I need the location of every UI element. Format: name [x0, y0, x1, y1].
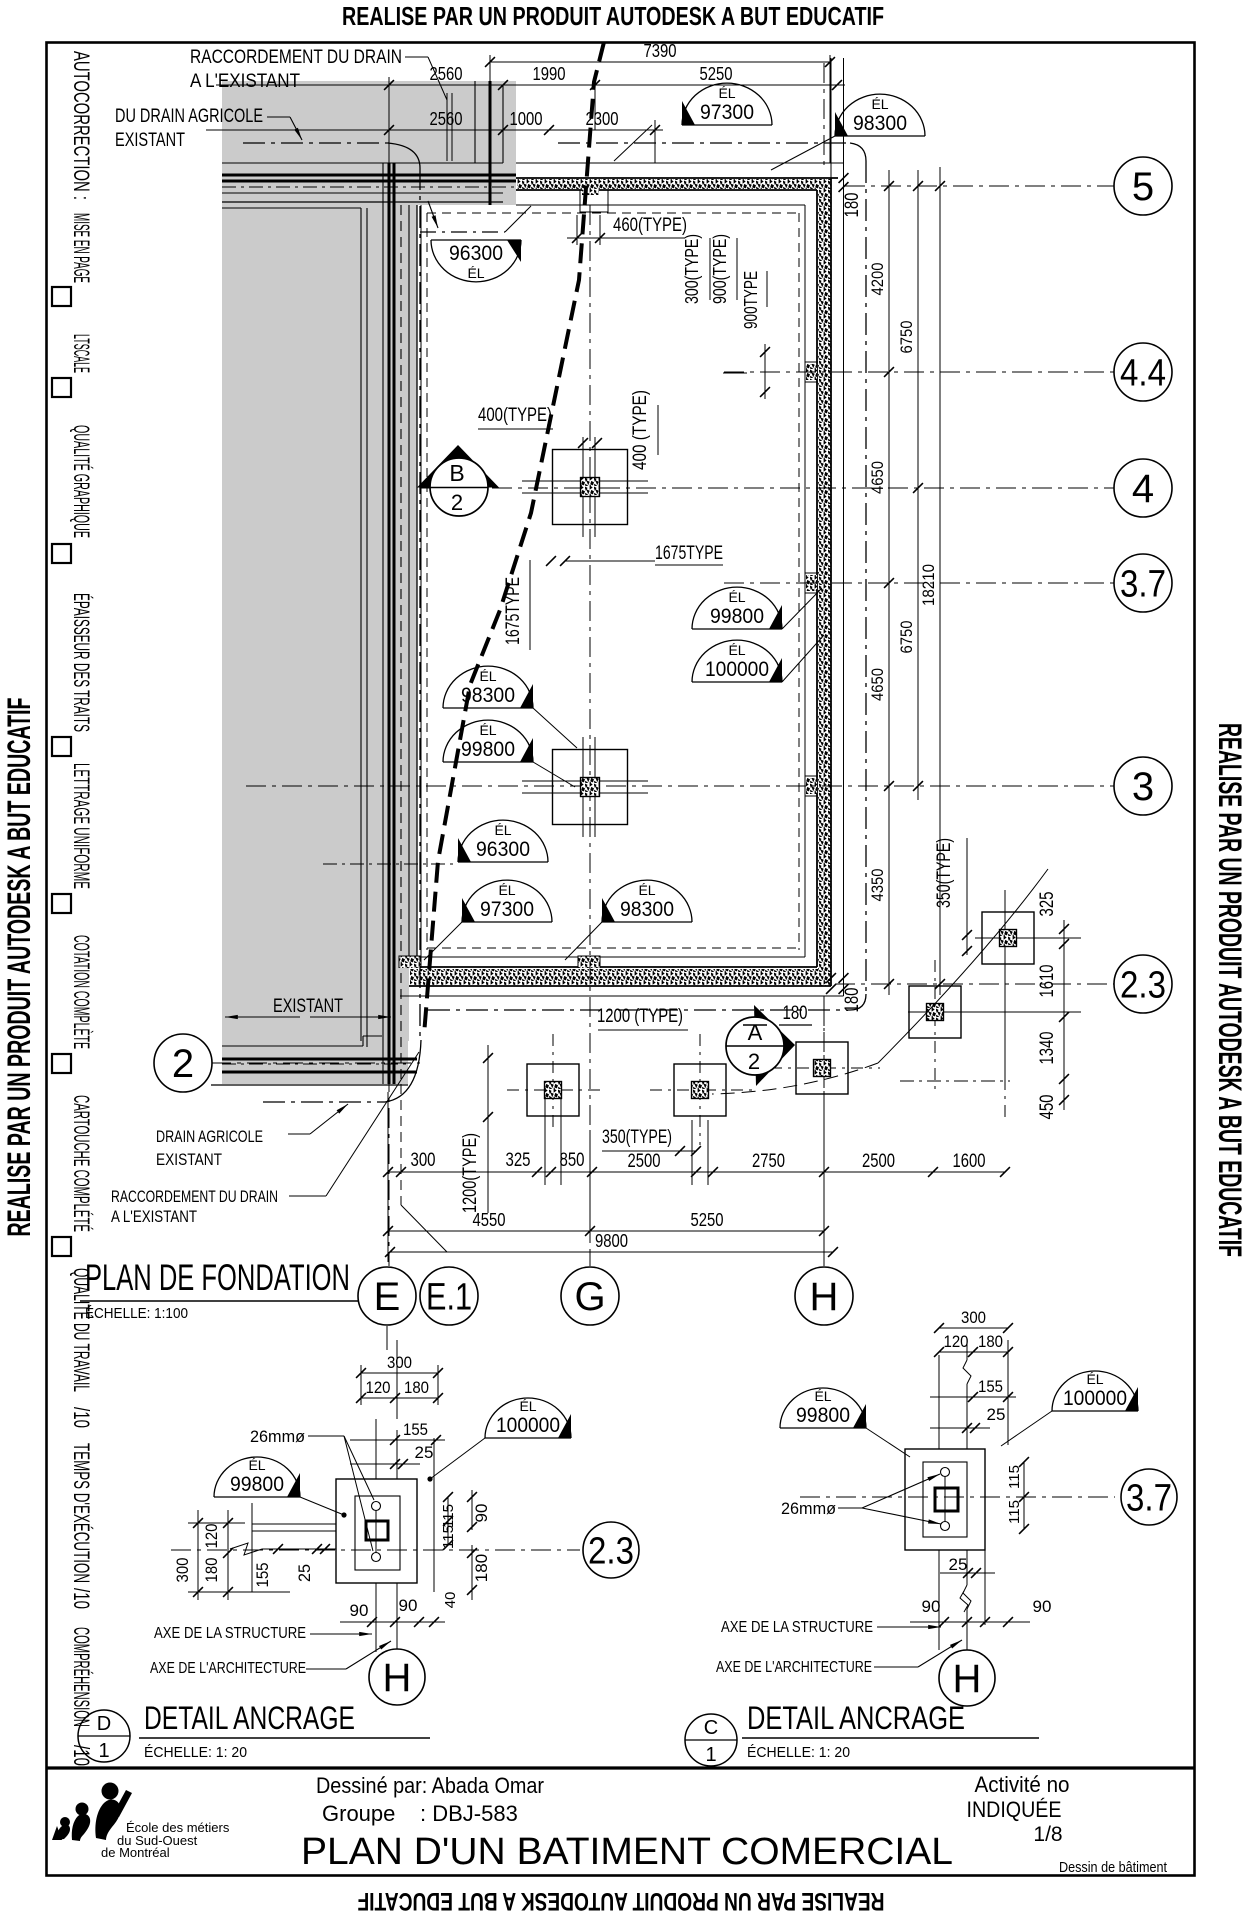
new drain right: [865, 161, 867, 994]
svg-text:25: 25: [987, 1405, 1006, 1424]
svg-text:: DBJ-583: : DBJ-583: [420, 1801, 518, 1826]
drain corner arc top-left: [388, 143, 420, 168]
svg-text:300: 300: [411, 1150, 436, 1171]
elevation 98300 bottom: [602, 880, 692, 922]
svg-text:REALISE PAR UN PRODUIT AUTODES: REALISE PAR UN PRODUIT AUTODESK A BUT ED…: [358, 1887, 885, 1915]
svg-text:99800: 99800: [796, 1404, 850, 1427]
top foundation wall (stippled): [517, 179, 831, 189]
svg-text:2560: 2560: [430, 64, 463, 84]
drain vertical (raccordement): [419, 168, 421, 1040]
svg-text:155: 155: [978, 1377, 1003, 1396]
grid bubble 5: [1114, 157, 1172, 215]
dim row 2560/1000/2300: [206, 129, 663, 131]
svg-text:2750: 2750: [752, 1151, 785, 1172]
svg-text:A L'EXISTANT: A L'EXISTANT: [111, 1207, 197, 1226]
svg-text:300(TYPE): 300(TYPE): [682, 234, 702, 304]
new drain bottom: [428, 1009, 850, 1011]
footing F7: [1004, 890, 1006, 1078]
detail C1 elevation 99800: [780, 1388, 866, 1428]
dim 4550/5250: [388, 1230, 824, 1232]
svg-text:90: 90: [922, 1597, 941, 1616]
svg-text:4: 4: [1132, 467, 1154, 511]
svg-text:25: 25: [295, 1564, 314, 1582]
detail C1 ref circle C/1: [685, 1714, 737, 1766]
svg-text:E.1: E.1: [426, 1276, 472, 1318]
svg-text:ÉL: ÉL: [494, 822, 511, 838]
grid bubble E: [358, 1267, 416, 1325]
svg-text:DRAIN AGRICOLE: DRAIN AGRICOLE: [156, 1127, 263, 1146]
svg-text:2: 2: [172, 1042, 194, 1086]
svg-text:100000: 100000: [496, 1414, 560, 1437]
detail C1 top dims: [939, 1327, 1008, 1329]
svg-text:6750: 6750: [897, 621, 916, 654]
grid line 2.3: [835, 983, 1119, 985]
svg-text:2500: 2500: [862, 1151, 895, 1172]
elevation 98300 mid: [443, 666, 533, 708]
svg-text:2560: 2560: [430, 109, 463, 129]
svg-text:1200(TYPE): 1200(TYPE): [460, 1133, 481, 1213]
svg-text:155: 155: [253, 1563, 272, 1588]
svg-text:5250: 5250: [700, 64, 733, 84]
svg-text:6750: 6750: [897, 321, 916, 354]
svg-text:Activité no: Activité no: [975, 1772, 1070, 1797]
svg-text:D: D: [97, 1713, 111, 1735]
detail D1 vertical lines: [375, 1419, 377, 1479]
dim 9800: [390, 1251, 833, 1253]
dim 1200(TYPE) vertical: [487, 1045, 489, 1213]
svg-text:115: 115: [1006, 1465, 1023, 1489]
svg-text:COMPRÉHENSION: COMPRÉHENSION: [69, 1627, 94, 1727]
svg-text:ÉL: ÉL: [479, 722, 496, 738]
svg-text:ÉL: ÉL: [248, 1457, 265, 1473]
svg-text:1675TYPE: 1675TYPE: [655, 543, 723, 564]
svg-text:ÉPAISSEUR DES TRAITS: ÉPAISSEUR DES TRAITS: [69, 593, 94, 732]
svg-text:97300: 97300: [480, 898, 534, 921]
svg-text:2.3: 2.3: [1120, 964, 1166, 1006]
logo École des métiers: [52, 1783, 132, 1842]
svg-text:ÉL: ÉL: [871, 96, 888, 112]
svg-text:900(TYPE): 900(TYPE): [710, 234, 730, 304]
svg-text:C: C: [704, 1717, 718, 1739]
right wall pilasters: [805, 362, 818, 382]
grid line 3: [246, 785, 1114, 787]
svg-text:DETAIL ANCRAGE: DETAIL ANCRAGE: [144, 1700, 355, 1736]
leader curve through footings: [878, 869, 1048, 1063]
svg-text:350(TYPE): 350(TYPE): [602, 1127, 672, 1148]
elevation 100000 right: [692, 640, 782, 682]
svg-text:7390: 7390: [644, 41, 677, 61]
svg-text:5250: 5250: [691, 1210, 724, 1230]
svg-text:ÉL: ÉL: [519, 1398, 536, 1414]
svg-text:LETTRAGE UNIFORME: LETTRAGE UNIFORME: [69, 763, 94, 889]
svg-text:REALISE PAR UN PRODUIT AUTODES: REALISE PAR UN PRODUIT AUTODESK A BUT ED…: [1212, 723, 1242, 1257]
svg-text:2500: 2500: [628, 1151, 661, 1172]
svg-text:400 (TYPE): 400 (TYPE): [630, 390, 651, 470]
svg-text:ÉL: ÉL: [479, 668, 496, 684]
detail D1 column outline: [336, 1479, 417, 1583]
detail C1 anchor bolts: [941, 1468, 950, 1477]
grid line E: [388, 77, 390, 163]
svg-text:ÉCHELLE: 1: 20: ÉCHELLE: 1: 20: [747, 1744, 850, 1761]
svg-text:DETAIL ANCRAGE: DETAIL ANCRAGE: [747, 1700, 965, 1736]
svg-text:LTSCALE: LTSCALE: [69, 334, 94, 373]
svg-text:1340: 1340: [1037, 1032, 1058, 1065]
svg-text:96300: 96300: [476, 838, 530, 861]
svg-text:RACCORDEMENT DU DRAIN: RACCORDEMENT DU DRAIN: [111, 1187, 278, 1206]
svg-text:120: 120: [944, 1332, 969, 1351]
grid line G: [589, 205, 591, 1266]
detail C1 anchor plate: [935, 1488, 958, 1511]
svg-text:2: 2: [451, 490, 463, 515]
svg-text:155: 155: [403, 1420, 428, 1439]
svg-text:1000: 1000: [510, 109, 543, 129]
svg-text:850: 850: [560, 1150, 585, 1171]
svg-text:B: B: [449, 460, 464, 486]
svg-text:G: G: [574, 1275, 605, 1319]
svg-text:26mmø: 26mmø: [781, 1499, 836, 1518]
svg-text:450: 450: [1037, 1095, 1058, 1120]
grid bubble 3: [1114, 757, 1172, 815]
svg-text:3: 3: [1132, 765, 1154, 809]
svg-text:ÉL: ÉL: [728, 642, 745, 658]
detail D1 elevation 99800: [214, 1457, 300, 1497]
svg-text:ÉCHELLE: 1:100: ÉCHELLE: 1:100: [85, 1305, 188, 1322]
svg-text:A: A: [748, 1020, 763, 1045]
grid line 5: [845, 185, 1114, 187]
svg-text:460(TYPE): 460(TYPE): [613, 215, 687, 236]
svg-text:QUALITÉ GRAPHIQUE: QUALITÉ GRAPHIQUE: [69, 425, 94, 538]
footing F2 at grid G-3: [582, 737, 584, 837]
svg-text:180: 180: [842, 988, 863, 1013]
grid bubble 3.7: [1114, 554, 1172, 612]
existing building gray area: [222, 81, 516, 1084]
svg-text:1200 (TYPE): 1200 (TYPE): [597, 1006, 683, 1027]
svg-text:1/8: 1/8: [1033, 1823, 1062, 1846]
interior hidden dashed outline: [426, 213, 428, 950]
svg-text:Dessiné par: Abada Omar: Dessiné par: Abada Omar: [316, 1773, 544, 1798]
detail D1 left dim chain: [197, 1510, 199, 1600]
svg-text:PLAN D'UN BATIMENT COMERCIAL: PLAN D'UN BATIMENT COMERCIAL: [301, 1831, 953, 1873]
svg-text:4200: 4200: [868, 263, 887, 296]
svg-text:CARTOUCHE COMPLÉTÉ: CARTOUCHE COMPLÉTÉ: [69, 1095, 94, 1232]
svg-text:TEMPS D'EXÉCUTION: TEMPS D'EXÉCUTION: [69, 1443, 94, 1583]
grid line E.1: [400, 1084, 402, 1205]
elevation 97300 bottom: [462, 880, 552, 922]
existing left wall lines: [382, 163, 384, 1084]
svg-text:/10: /10: [69, 1588, 94, 1609]
svg-text:INDIQUÉE: INDIQUÉE: [967, 1797, 1062, 1822]
svg-text:AUTOCORRECTION :: AUTOCORRECTION :: [69, 51, 94, 200]
svg-text:EXISTANT: EXISTANT: [156, 1150, 222, 1169]
svg-text:RACCORDEMENT DU DRAIN: RACCORDEMENT DU DRAIN: [190, 47, 402, 68]
svg-text:9800: 9800: [595, 1231, 628, 1251]
svg-text:REALISE PAR UN PRODUIT AUTODES: REALISE PAR UN PRODUIT AUTODESK A BUT ED…: [342, 1, 884, 31]
elevation 97300 top: [682, 83, 772, 125]
svg-text:A L'EXISTANT: A L'EXISTANT: [190, 71, 300, 92]
svg-text:1: 1: [705, 1744, 716, 1766]
svg-text:ÉL: ÉL: [467, 265, 484, 281]
title block divider: [47, 1766, 1195, 1769]
svg-text:25: 25: [949, 1555, 968, 1574]
dim chain 6750/6750: [917, 170, 919, 800]
svg-text:Dessin de bâtiment: Dessin de bâtiment: [1059, 1859, 1168, 1876]
section marker B/2: [417, 445, 499, 488]
svg-text:4.4: 4.4: [1120, 352, 1166, 394]
section cut bold dashed line: [424, 42, 604, 1035]
svg-text:99800: 99800: [230, 1473, 284, 1496]
svg-text:3.7: 3.7: [1120, 563, 1166, 605]
svg-text:H: H: [810, 1275, 839, 1319]
extension lines bottom: [387, 1092, 389, 1262]
svg-text:98300: 98300: [461, 684, 515, 707]
svg-text:3.7: 3.7: [1126, 1477, 1172, 1519]
svg-text:MISE EN PAGE: MISE EN PAGE: [69, 213, 94, 283]
svg-text:2300: 2300: [586, 109, 619, 129]
svg-text:300: 300: [961, 1308, 986, 1327]
dim chain 4200/4650/4650/4350: [888, 170, 890, 995]
elevation 99800 right: [692, 587, 782, 629]
existing drain dash-dot bottom: [263, 1101, 385, 1103]
new drain top: [558, 142, 850, 144]
svg-text:90: 90: [399, 1596, 418, 1615]
grid line H: [823, 63, 825, 166]
svg-text:1: 1: [98, 1740, 109, 1762]
svg-text:180: 180: [978, 1332, 1003, 1351]
svg-text:ÉL: ÉL: [718, 85, 735, 101]
elevation 98300 top: [835, 94, 925, 136]
svg-text:25: 25: [415, 1443, 434, 1462]
elevation 99800 mid: [443, 720, 533, 762]
dim chain 325/1610/1340/450: [1063, 920, 1065, 1110]
detail C1 right dims 115/115: [1023, 1462, 1025, 1529]
detail C1 column outline: [905, 1449, 985, 1550]
svg-text:180: 180: [202, 1558, 221, 1583]
footing F1 at grid G-4: [582, 437, 584, 537]
svg-text:90: 90: [1033, 1597, 1052, 1616]
short dash near chain: [900, 1080, 1010, 1082]
dim row 2560/1990/5250: [216, 84, 845, 86]
svg-text:E: E: [374, 1275, 401, 1319]
svg-text:ÉL: ÉL: [1086, 1371, 1103, 1387]
bottom foundation wall (stippled): [410, 969, 818, 985]
grid line 3.7: [724, 582, 1114, 584]
detail D1 elevation 100000: [485, 1398, 571, 1438]
footing F6: [934, 960, 936, 1093]
svg-text:AXE DE LA STRUCTURE: AXE DE LA STRUCTURE: [721, 1619, 873, 1636]
svg-text:ÉL: ÉL: [814, 1388, 831, 1404]
elevation 96300 lower: [458, 820, 548, 862]
detail D1 bubble 2.3: [583, 1522, 639, 1578]
svg-text:120: 120: [202, 1524, 221, 1549]
svg-text:325: 325: [506, 1150, 531, 1171]
svg-text:90: 90: [472, 1504, 491, 1523]
svg-text:PLAN DE FONDATION: PLAN DE FONDATION: [85, 1257, 350, 1298]
section marker A/2: [754, 1005, 795, 1086]
grid line 4: [420, 487, 1114, 489]
detail C1 elevation 100000: [1052, 1371, 1138, 1411]
svg-text:40: 40: [442, 1592, 459, 1609]
svg-text:98300: 98300: [853, 112, 907, 135]
footing F5: [823, 1010, 825, 1130]
top wall pilaster notch at G: [580, 190, 608, 212]
svg-text:115: 115: [1006, 1500, 1023, 1524]
svg-text:96300: 96300: [449, 242, 503, 265]
svg-text:AXE DE L'ARCHITECTURE: AXE DE L'ARCHITECTURE: [150, 1660, 306, 1677]
svg-text:AXE DE LA STRUCTURE: AXE DE LA STRUCTURE: [154, 1625, 306, 1642]
detail C1 grid 3.7 centerline: [800, 1496, 1115, 1498]
existing bottom wall lines: [222, 1045, 363, 1047]
dim 180 bottom right wall: [839, 973, 849, 983]
grid bubble 4: [1114, 459, 1172, 517]
grid bubble G: [561, 1267, 619, 1325]
svg-text:ÉL: ÉL: [728, 589, 745, 605]
grid bubble 4.4: [1114, 343, 1172, 401]
footing F4: [699, 1034, 701, 1145]
svg-text:H: H: [953, 1657, 982, 1701]
svg-text:180: 180: [783, 1003, 808, 1024]
svg-text:2: 2: [748, 1049, 760, 1074]
detail D1 beam lines left: [252, 1523, 336, 1525]
svg-text:99800: 99800: [710, 605, 764, 628]
drain corner arc bottom-left: [385, 1040, 421, 1102]
detail C1 vertical lines: [938, 1355, 940, 1449]
existing top wall lines: [222, 162, 503, 164]
svg-text:350(TYPE): 350(TYPE): [934, 838, 955, 908]
svg-text:900TYPE: 900TYPE: [741, 271, 761, 329]
right foundation wall (stippled): [818, 179, 831, 986]
detail D1 anchor bolts: [372, 1502, 381, 1511]
svg-text:5: 5: [1132, 165, 1154, 209]
svg-text:ÉCHELLE: 1: 20: ÉCHELLE: 1: 20: [144, 1744, 247, 1761]
grid line 2: [211, 1062, 420, 1064]
svg-text:90: 90: [350, 1601, 369, 1620]
detail D1 bubble H: [369, 1649, 425, 1705]
svg-text:COTATION COMPLÈTE: COTATION COMPLÈTE: [69, 935, 94, 1049]
svg-text:EXISTANT: EXISTANT: [273, 996, 343, 1017]
svg-text:99800: 99800: [461, 738, 515, 761]
svg-text:EXISTANT: EXISTANT: [115, 130, 185, 151]
detail D1 grid 2.3 centerline: [171, 1549, 580, 1551]
svg-text:1990: 1990: [533, 64, 566, 84]
svg-text:325: 325: [1037, 892, 1058, 917]
svg-text:100000: 100000: [705, 658, 769, 681]
svg-text:4650: 4650: [868, 461, 887, 494]
detail D1 top dims: [361, 1372, 438, 1374]
svg-text:26mmø: 26mmø: [250, 1427, 305, 1446]
svg-text:18210: 18210: [919, 564, 938, 606]
svg-text:300: 300: [387, 1353, 412, 1372]
svg-text:1600: 1600: [953, 1151, 986, 1172]
svg-text:/10: /10: [69, 1407, 94, 1428]
detail C1 bubble H: [939, 1650, 995, 1706]
detail D1 ref circle D/1: [78, 1710, 130, 1762]
wall face extension lines top right: [830, 58, 832, 178]
svg-text:AXE DE L'ARCHITECTURE: AXE DE L'ARCHITECTURE: [716, 1659, 872, 1676]
svg-text:97300: 97300: [700, 101, 754, 124]
svg-text:180: 180: [842, 193, 863, 218]
elevation 96300 top-left (inverted): [431, 240, 521, 282]
svg-text:ÉL: ÉL: [498, 882, 515, 898]
svg-text:180: 180: [404, 1378, 429, 1397]
grid bubble H: [795, 1267, 853, 1325]
dim 180 top right: [839, 173, 849, 183]
svg-text:4350: 4350: [868, 869, 887, 902]
svg-text:ÉL: ÉL: [638, 882, 655, 898]
bottom wall pilaster stipple squares: [399, 956, 421, 968]
svg-text:300: 300: [173, 1558, 192, 1583]
detail D1 right dims 115/115/90/180/40: [447, 1497, 449, 1545]
svg-text:98300: 98300: [620, 898, 674, 921]
grid bubble 2: [154, 1034, 212, 1092]
svg-text:DU DRAIN AGRICOLE: DU DRAIN AGRICOLE: [115, 106, 263, 127]
svg-text:Groupe: Groupe: [322, 1801, 395, 1826]
svg-text:180: 180: [472, 1554, 491, 1582]
raccordement pipe lines: [446, 93, 448, 161]
grid bubble E.1: [420, 1267, 478, 1325]
dim 7390: [490, 61, 830, 63]
detail C1 bubble 3.7: [1121, 1469, 1177, 1525]
grid bubble 2.3: [1114, 955, 1172, 1013]
footing F3: [552, 1034, 554, 1130]
dim row 300/325/850/2500/2750/2500/1600: [388, 1171, 1005, 1173]
grid line 4.4: [724, 371, 1114, 373]
svg-text:115: 115: [440, 1504, 457, 1528]
svg-text:REALISE PAR UN PRODUIT AUTODES: REALISE PAR UN PRODUIT AUTODESK A BUT ED…: [1, 698, 37, 1237]
svg-text:400(TYPE): 400(TYPE): [478, 405, 552, 426]
svg-text:4650: 4650: [868, 668, 887, 701]
existing wall right verticals: [474, 81, 476, 163]
svg-text:1675TYPE: 1675TYPE: [503, 577, 524, 645]
svg-text:120: 120: [366, 1378, 391, 1397]
svg-text:100000: 100000: [1063, 1387, 1127, 1410]
svg-text:1610: 1610: [1037, 965, 1058, 998]
existing drain dash-dot top: [243, 142, 390, 144]
svg-text:de Montréal: de Montréal: [101, 1845, 170, 1860]
svg-text:H: H: [383, 1656, 412, 1700]
dim chain 18210: [939, 167, 941, 995]
detail D1 anchor plate: [366, 1521, 388, 1540]
svg-text:2.3: 2.3: [588, 1530, 634, 1572]
